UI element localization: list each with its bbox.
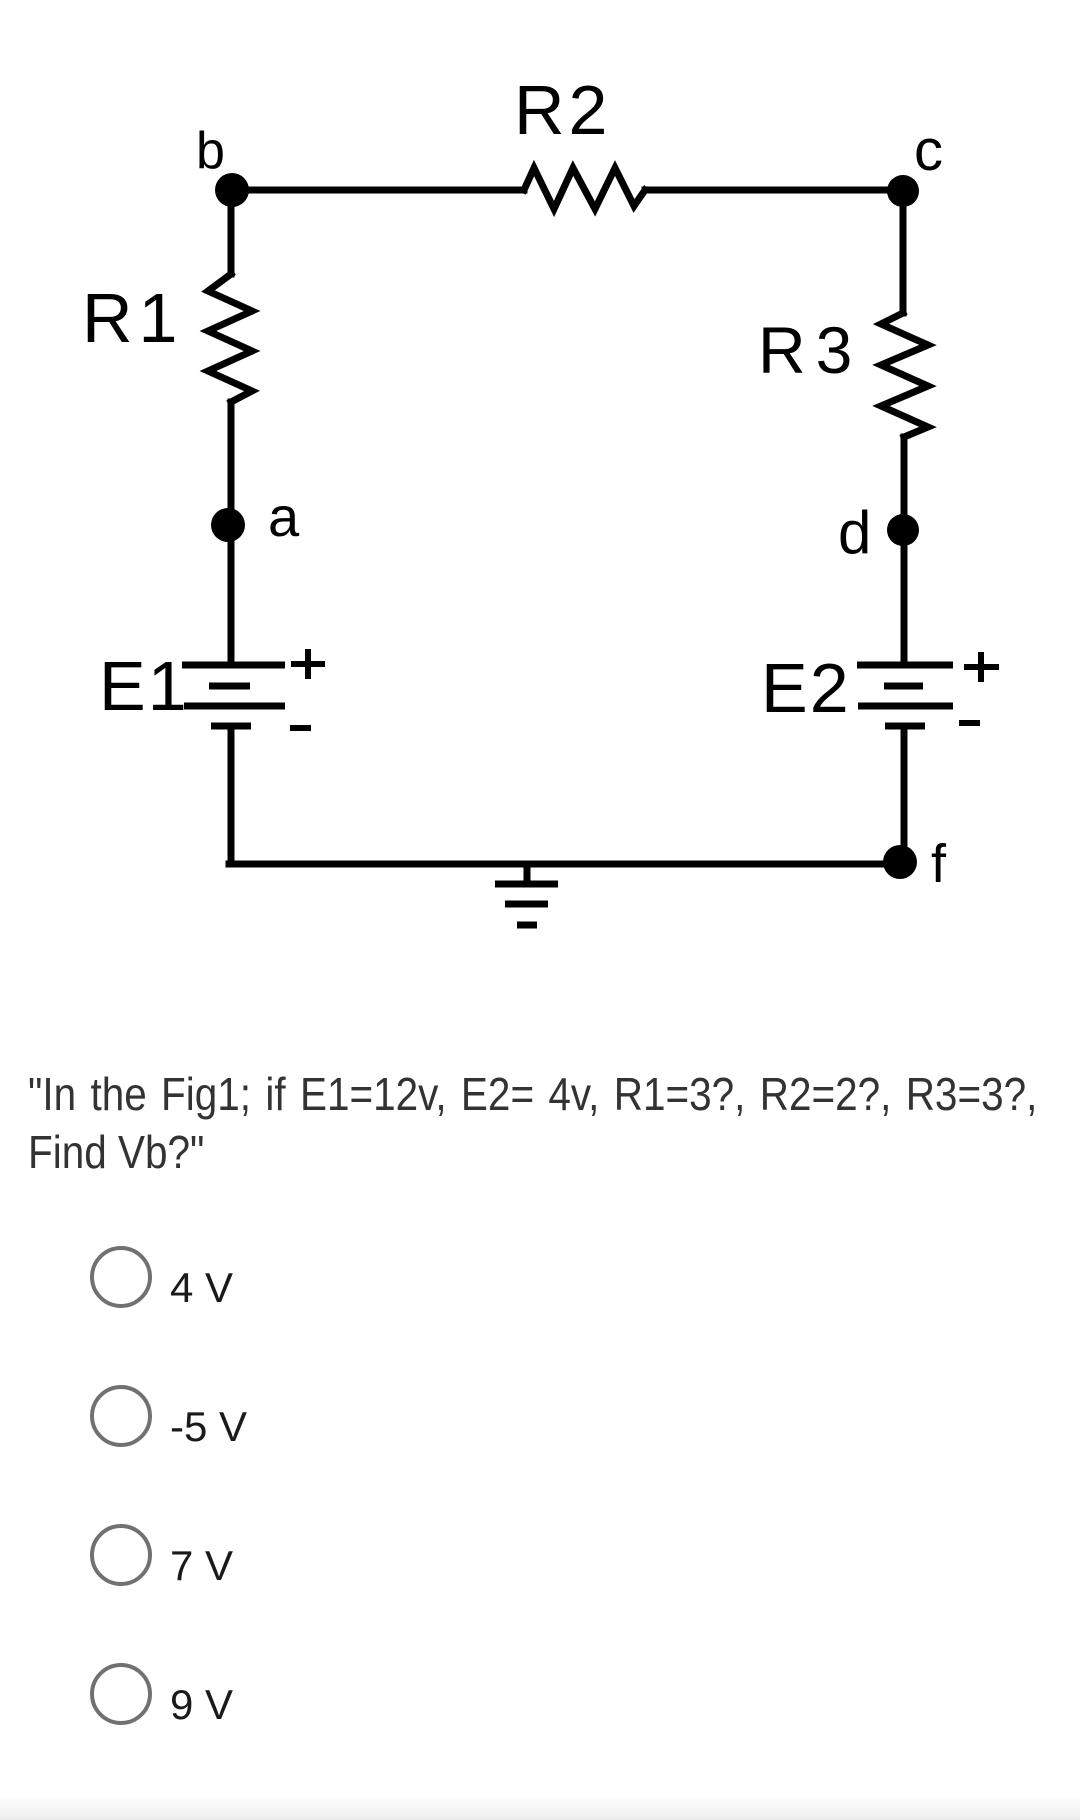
svg-text:R1: R1 xyxy=(82,279,183,357)
svg-text:a: a xyxy=(268,485,300,548)
svg-text:E1: E1 xyxy=(99,647,189,725)
svg-text:f: f xyxy=(931,834,947,894)
svg-text:d: d xyxy=(838,499,871,566)
svg-text:R2: R2 xyxy=(514,71,611,149)
svg-text:R3: R3 xyxy=(758,313,862,387)
svg-text:E2: E2 xyxy=(761,649,851,727)
svg-text:b: b xyxy=(196,122,225,180)
svg-text:c: c xyxy=(914,118,943,183)
